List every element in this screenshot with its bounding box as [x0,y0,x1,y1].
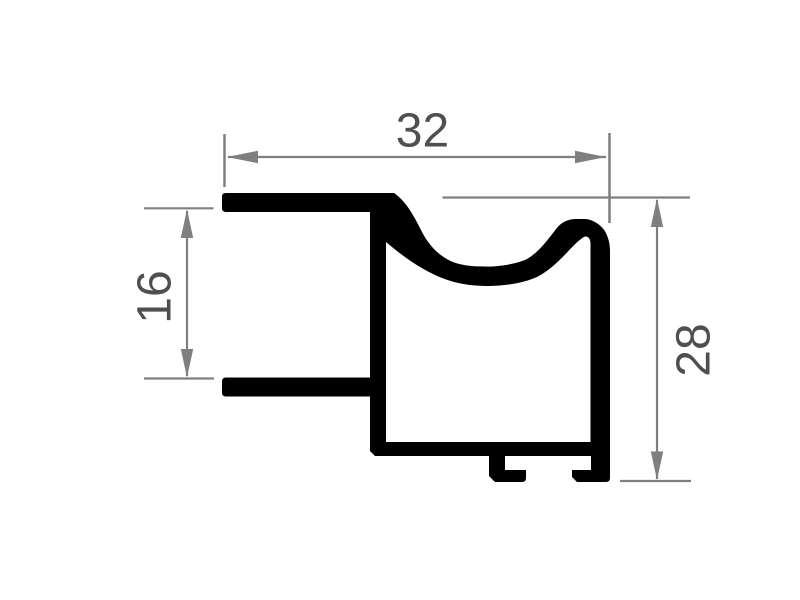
dimension 28: top extension line [443,196,691,198]
dimension 32: left extension line [223,134,226,187]
dimension 32: left arrowhead [227,151,258,163]
dimension 16: bottom arrowhead [181,349,193,378]
dimension 32: right extension line [608,133,611,223]
dimension 28: dimension line [656,200,658,479]
svg-text:16: 16 [129,270,182,323]
dimension 32: right arrowhead [575,151,606,163]
dimension 28: bottom extension line [620,480,691,482]
profile outline P1 [222,193,610,482]
dimension 16: top extension line [144,207,214,209]
dimension 16: dimension line [186,211,188,376]
dimension 16: bottom extension line [144,377,214,379]
dimension 28: top arrowhead [651,199,663,228]
svg-text:28: 28 [668,323,721,376]
dimension 16: top arrowhead [181,209,193,238]
dimension 32: dimension line [228,156,606,158]
dimension 28: bottom arrowhead [651,452,663,481]
svg-text:32: 32 [396,105,449,158]
